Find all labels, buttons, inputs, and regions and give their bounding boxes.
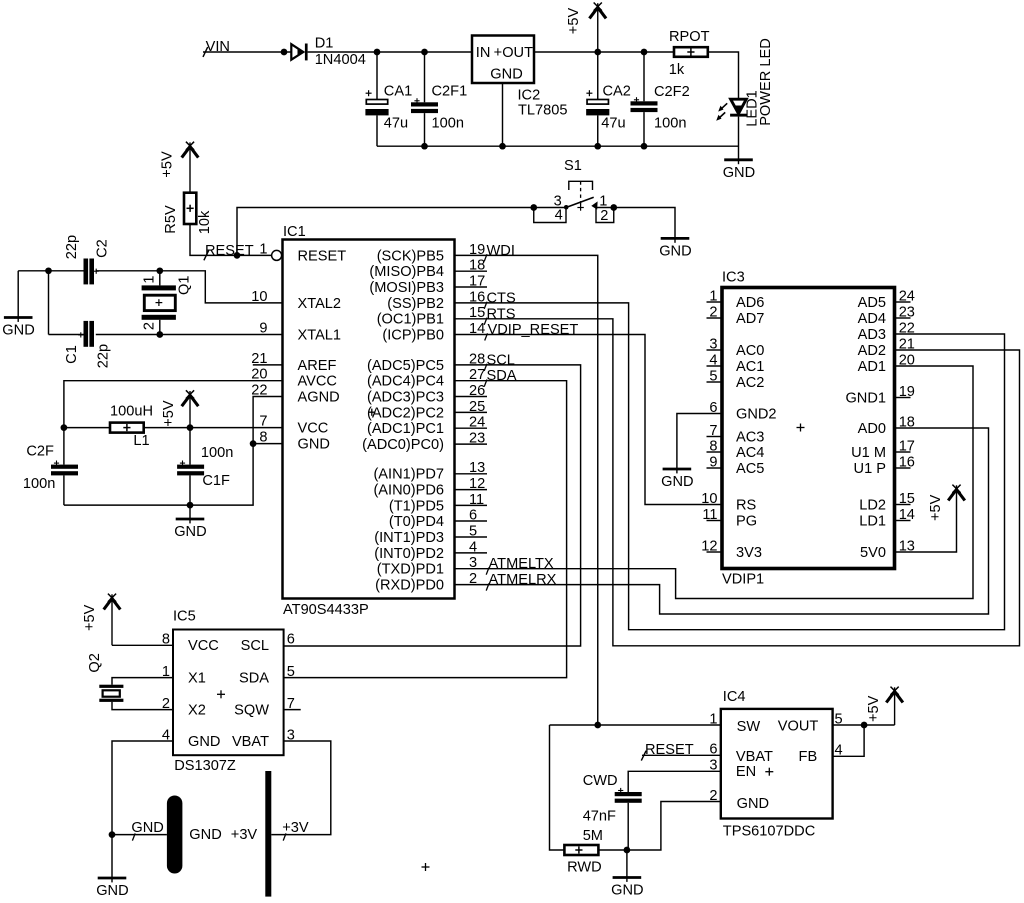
value 1k [669, 62, 685, 78]
net tick ATMELRX [486, 583, 489, 590]
wire IC5 X2 to Q2 [112, 702, 173, 710]
svg-text:47u: 47u [384, 116, 408, 132]
svg-text:(ADC4)PC4: (ADC4)PC4 [367, 374, 444, 390]
svg-text:RPOT: RPOT [669, 29, 710, 45]
junction C1/C2 ground branch [45, 267, 52, 274]
IC IC5 (RTC DS1307) box [173, 630, 284, 756]
value TPS6107DDC [723, 824, 815, 840]
label Q2 (rotated) [87, 653, 103, 672]
wire C1 left plate [49, 334, 84, 336]
net label RESET (IC1) [205, 243, 254, 259]
label C1 (rotated) [64, 345, 80, 364]
svg-text:(ADC2)PC2: (ADC2)PC2 [367, 405, 444, 421]
svg-text:AD1: AD1 [858, 359, 886, 375]
svg-text:(ADC3)PC3: (ADC3)PC3 [367, 389, 444, 405]
wire R5V to RESET pin of IC1 [190, 224, 272, 255]
svg-text:18: 18 [899, 414, 915, 430]
IC3 left pin numbers [701, 288, 717, 554]
wire IC5 VCC to +5V [112, 644, 173, 646]
svg-text:3V3: 3V3 [736, 545, 762, 561]
value TL7805 [518, 102, 568, 118]
svg-text:AD6: AD6 [736, 295, 764, 311]
wire IC4 FB to VOUT node [833, 725, 865, 756]
wire VIN to D1 anode [203, 51, 291, 53]
wire ATMELTX (IC1 pin3 to VDIP AD1) [455, 366, 974, 599]
svg-text:C2F: C2F [26, 444, 54, 460]
value 47nF [583, 808, 616, 824]
label D1 [315, 36, 334, 52]
junction Q1 top [156, 267, 163, 274]
svg-text:VIN: VIN [206, 39, 230, 55]
svg-text:4: 4 [555, 208, 563, 224]
svg-text:LD2: LD2 [859, 497, 886, 513]
IC3 unconnected right pin stubs [895, 302, 911, 521]
IC1 unconnected right pin stubs [455, 271, 488, 553]
label IC5 [173, 609, 196, 625]
wire SW node down to RWD [550, 725, 565, 850]
wire IC5 GND pin4 to battery minus [112, 741, 173, 877]
svg-text:(MISO)PB4: (MISO)PB4 [369, 264, 444, 280]
svg-text:100n: 100n [654, 116, 686, 132]
svg-text:GND: GND [96, 883, 128, 899]
ground symbol below CWD [611, 878, 643, 899]
wire IC3 GND2 to ground [677, 414, 722, 469]
label CA2 [603, 83, 631, 99]
svg-text:IC2: IC2 [518, 88, 541, 104]
svg-text:RESET: RESET [298, 248, 347, 264]
IC5 right pin numbers [287, 632, 295, 744]
svg-text:AD5: AD5 [858, 295, 886, 311]
IC IC3 (VDIP1 module) box [722, 288, 895, 569]
wire D1 cathode to IC2 IN [308, 51, 472, 53]
net label VDIP_RESET [488, 322, 579, 338]
wire IC4 GND pin2 to CWD node [627, 802, 721, 851]
IC3 right pin numbers [899, 288, 915, 554]
power +5V arrow above IC5 VCC [82, 594, 120, 646]
ground symbol below LED1 [723, 160, 755, 181]
net stub slash RESET [204, 250, 209, 260]
power +5V arrow above R5V [160, 142, 199, 193]
svg-text:1k: 1k [669, 62, 685, 78]
svg-text:GND: GND [174, 524, 206, 540]
svg-text:GND: GND [2, 323, 34, 339]
net stub slash VIN [203, 47, 208, 57]
capacitor CWD [615, 788, 642, 850]
svg-text:CWD: CWD [583, 773, 618, 789]
junction at D1 anode [281, 49, 288, 56]
label IC1 [283, 224, 306, 240]
IC1 right pin numbers [469, 242, 485, 587]
svg-text:(ADC1)PC1: (ADC1)PC1 [367, 421, 444, 437]
svg-text:AC4: AC4 [736, 445, 764, 461]
svg-text:GND: GND [737, 796, 769, 812]
switch S1 [534, 181, 614, 222]
capacitor C2F1 [411, 52, 438, 146]
svg-text:(T1)PD5: (T1)PD5 [389, 498, 444, 514]
svg-text:+5V: +5V [161, 400, 177, 427]
capacitor C1 (22p) [78, 321, 94, 347]
svg-text:+5V: +5V [160, 151, 176, 178]
svg-text:21: 21 [899, 336, 915, 352]
value 47u (CA2) [601, 116, 625, 132]
label IC4 [723, 689, 746, 705]
net tick SCL [484, 364, 487, 371]
ground symbol left of crystal [2, 318, 34, 339]
IC4 right pin numbers [835, 711, 843, 758]
svg-text:AVCC: AVCC [298, 374, 337, 390]
wire IC4 VOUT to +5V [833, 724, 895, 726]
svg-text:100n: 100n [23, 476, 55, 492]
svg-text:GND: GND [490, 67, 522, 83]
svg-text:Q2: Q2 [87, 653, 103, 672]
net label SDA [487, 368, 517, 384]
wire LED1 cathode to ground [738, 117, 740, 160]
pin number 4 of S1 [555, 208, 563, 224]
junction C2F2 top [641, 49, 648, 56]
wire AVCC (IC1 pin20) down to L1 node [64, 381, 283, 428]
crystal Q2 [99, 685, 123, 702]
svg-text:AC2: AC2 [736, 375, 764, 391]
ground symbol below S1 [659, 238, 691, 259]
svg-text:(SS)PB2: (SS)PB2 [387, 296, 444, 312]
svg-text:SW: SW [737, 719, 761, 735]
wire WDI (IC1 pin19 to IC4 SW node) [455, 255, 598, 725]
wire XTAL2 net (IC1 pin10 to Q1 and C2) [96, 271, 283, 303]
IC3 unconnected left pin stubs [707, 302, 723, 552]
IC5 SQW pin stub [284, 709, 301, 711]
wire XTAL1 net (IC1 pin9 to Q1 and C1) [96, 334, 283, 336]
value 100n of C1F [201, 445, 233, 461]
pin number 1 of S1 [599, 193, 607, 209]
svg-text:U1 M: U1 M [851, 445, 886, 461]
junction battery GND node [109, 831, 116, 838]
svg-text:C2F1: C2F1 [432, 83, 468, 99]
label R5V (rotated) [163, 205, 179, 234]
ground symbol below IC3 GND2 [661, 469, 693, 490]
svg-text:1: 1 [142, 276, 158, 284]
junction RESET / S1 branch [234, 252, 241, 259]
svg-text:Q1: Q1 [177, 275, 193, 294]
svg-text:VOUT: VOUT [778, 718, 819, 734]
svg-text:47u: 47u [601, 116, 625, 132]
resistor RPOT [674, 47, 708, 57]
power +5V arrow at IC4 VOUT [866, 687, 903, 725]
svg-text:+5V: +5V [566, 8, 582, 35]
svg-text:5V0: 5V0 [860, 545, 886, 561]
svg-text:(TXD)PD1: (TXD)PD1 [377, 562, 444, 578]
svg-text:IC1: IC1 [283, 224, 306, 240]
svg-text:(AIN1)PD7: (AIN1)PD7 [373, 467, 444, 483]
wire IC2 GND pin to ground rail [502, 83, 504, 146]
resistor RWD [564, 845, 598, 855]
svg-text:ATMELRX: ATMELRX [489, 572, 557, 588]
wire RPOT to LED1 [708, 52, 739, 99]
svg-text:EN: EN [736, 764, 756, 780]
wire CTS (IC1 pin16 to VDIP AD3) [455, 303, 1005, 630]
svg-text:CTS: CTS [487, 290, 516, 306]
value 22p of C2 (rotated) [64, 235, 80, 259]
capacitor CA2 (electrolytic) [586, 52, 609, 146]
svg-text:X1: X1 [188, 671, 206, 687]
svg-text:1N4004: 1N4004 [315, 52, 366, 68]
net label +3V (wire) [282, 820, 309, 836]
svg-text:+3V: +3V [231, 827, 258, 843]
svg-text:+5V: +5V [82, 604, 98, 631]
wire VDIP_RESET (IC1 pin14 to VDIP RS) [455, 335, 723, 505]
svg-text:POWER LED: POWER LED [758, 38, 774, 126]
svg-text:S1: S1 [564, 158, 582, 174]
svg-text:GND1: GND1 [845, 390, 886, 406]
value 100n (C2F2) [654, 116, 686, 132]
IC4 left pin numbers [709, 711, 717, 804]
svg-text:+5V: +5V [866, 695, 882, 722]
wire CWD node to ground [626, 850, 628, 877]
inverting bubble on IC1 RESET pin [272, 250, 282, 260]
label CA1 [384, 83, 412, 99]
svg-text:20: 20 [899, 352, 915, 368]
svg-text:RESET: RESET [645, 742, 694, 758]
svg-text:(OC1)PB1: (OC1)PB1 [377, 312, 444, 328]
junction C2F1 top [421, 49, 428, 56]
svg-text:VCC: VCC [298, 421, 329, 437]
svg-text:SDA: SDA [487, 368, 517, 384]
wire ATMELRX (IC1 pin2 to VDIP AD0) [455, 428, 989, 614]
net tick CTS [484, 302, 487, 309]
svg-text:100n: 100n [201, 445, 233, 461]
svg-text:(ADC5)PC5: (ADC5)PC5 [367, 358, 444, 374]
svg-text:XTAL2: XTAL2 [298, 296, 342, 312]
junction rail C2F2 [641, 143, 648, 150]
svg-text:C1F: C1F [202, 473, 230, 489]
svg-text:AD7: AD7 [736, 311, 764, 327]
net label RESET (IC4) [645, 742, 694, 758]
svg-text:1: 1 [599, 193, 607, 209]
wire L1 to AVCC node [64, 427, 110, 429]
junction FB at VOUT [861, 722, 868, 729]
net tick VDIP_RESET [485, 333, 488, 340]
wire GND net down and across (analog ground rail) [64, 444, 253, 506]
svg-text:GND: GND [188, 734, 220, 750]
svg-text:(T0)PD4: (T0)PD4 [389, 514, 444, 530]
wire IC5 X1 to Q2 [112, 678, 173, 685]
label RPOT [669, 29, 710, 45]
junction rail CA2 [594, 143, 601, 150]
capacitor C1F [177, 428, 204, 506]
junction WDI at SW [594, 722, 601, 729]
net tick ATMELTX [486, 568, 489, 575]
svg-text:RS: RS [736, 497, 757, 513]
wire IC3 5V0 to +5V [895, 497, 957, 552]
svg-text:VCC: VCC [188, 638, 219, 654]
capacitor C2F2 [631, 52, 658, 146]
net tick GND battery [132, 833, 135, 840]
power +5V arrow at IC3 5V0 [928, 485, 965, 521]
net label WDI [487, 243, 515, 259]
svg-text:AGND: AGND [298, 389, 340, 405]
wire RTS (IC1 pin15 to VDIP AD2) [455, 319, 1020, 646]
svg-text:(SCK)PB5: (SCK)PB5 [377, 248, 444, 264]
svg-text:SDA: SDA [239, 671, 269, 687]
net label CTS [487, 290, 516, 306]
junction AVCC / C2F node [61, 424, 68, 431]
IC5 left pin numbers [162, 632, 170, 744]
wire RWD to CWD junction [598, 849, 627, 851]
svg-text:(AIN0)PD6: (AIN0)PD6 [373, 483, 444, 499]
svg-text:R5V: R5V [163, 205, 179, 234]
label C2F1 [432, 83, 468, 99]
svg-text:RESET: RESET [205, 243, 254, 259]
svg-text:GND: GND [661, 474, 693, 490]
svg-text:100n: 100n [432, 116, 464, 132]
svg-text:5M: 5M [583, 828, 603, 844]
resistor R5V [184, 193, 196, 224]
junction CA1 top [374, 49, 381, 56]
net label ATMELRX [489, 572, 557, 588]
wire down to C1 [48, 271, 50, 335]
svg-text:VDIP_RESET: VDIP_RESET [488, 322, 579, 338]
wire to battery negative electrode [112, 834, 167, 836]
junction +5V / CA2 [594, 49, 601, 56]
svg-text:10: 10 [701, 491, 717, 507]
svg-text:+5V: +5V [928, 494, 944, 521]
capacitor C2 (22p) [84, 259, 99, 285]
svg-text:GND: GND [298, 437, 330, 453]
svg-text:IC4: IC4 [723, 689, 746, 705]
label LED1 (rotated) [745, 90, 761, 127]
label S1 [564, 158, 582, 174]
value VDIP1 [722, 572, 764, 588]
label C2F [26, 444, 54, 460]
value DS1307Z [174, 758, 236, 774]
svg-text:AC1: AC1 [736, 359, 764, 375]
battery electrode label +3V [231, 827, 258, 843]
svg-text:2: 2 [600, 208, 608, 224]
net label RTS [487, 306, 516, 322]
svg-text:+OUT: +OUT [494, 45, 533, 61]
label C2 (rotated) [94, 239, 110, 258]
value 100n [432, 116, 464, 132]
svg-text:IN: IN [476, 45, 491, 61]
wire IC4 SW net with WDI [550, 724, 721, 726]
svg-text:AC0: AC0 [736, 343, 764, 359]
svg-text:LD1: LD1 [859, 513, 886, 529]
wire to ground symbol (crystal section) [17, 271, 19, 317]
svg-text:ATMELTX: ATMELTX [489, 556, 554, 572]
wire IC4 EN to CWD top [628, 771, 721, 792]
battery origin cross [422, 863, 430, 871]
value 47u [384, 116, 408, 132]
wire IC2 OUT to RPOT (+5V net) [534, 51, 674, 53]
net label ATMELTX [489, 556, 554, 572]
capacitor C2F [51, 428, 78, 506]
Q1 pin number 1 (rotated) [142, 276, 158, 284]
capacitor CA1 (electrolytic) [365, 52, 388, 146]
junction S1 left contact pair [530, 204, 537, 211]
svg-text:GND: GND [131, 820, 163, 836]
svg-text:FB: FB [799, 749, 818, 765]
battery electrode label GND [189, 827, 221, 843]
net label SCL [487, 352, 515, 368]
svg-text:(ADC0)PC0): (ADC0)PC0) [362, 437, 444, 453]
label C1F [202, 473, 230, 489]
wire ground symbol stem (C1F rail) [189, 505, 191, 519]
junction S1 right contact pair [610, 204, 617, 211]
net label GND (battery) [131, 820, 163, 836]
svg-text:(ICP)PB0: (ICP)PB0 [382, 327, 444, 343]
diode D1 [291, 44, 307, 61]
power +5V arrow on VCC node [161, 390, 198, 427]
svg-text:IC5: IC5 [173, 609, 196, 625]
net tick +3V wire [283, 833, 286, 840]
svg-text:IC3: IC3 [722, 270, 745, 286]
svg-text:DS1307Z: DS1307Z [174, 758, 236, 774]
svg-text:U1 P: U1 P [854, 461, 886, 477]
wire AGND (IC1 pin22) down to GND net [253, 397, 282, 444]
svg-text:TL7805: TL7805 [518, 102, 568, 118]
IC1 left pin numbers [251, 241, 267, 445]
svg-text:(INT1)PD3: (INT1)PD3 [374, 530, 444, 546]
svg-text:(INT0)PD2: (INT0)PD2 [374, 546, 444, 562]
ground rail under power section [377, 145, 739, 147]
voltage regulator IC2 box [472, 36, 534, 84]
junction CWD bottom node [624, 847, 631, 854]
wire S1 to RESET net [237, 208, 534, 256]
wire IC4 VBAT (RESET net) [642, 754, 721, 756]
svg-text:PG: PG [736, 513, 757, 529]
svg-text:GND: GND [723, 165, 755, 181]
power +5V arrow above regulator output [566, 3, 606, 53]
label IC3 [722, 270, 745, 286]
net label VIN [206, 39, 230, 55]
value AT90S4433P [283, 602, 369, 618]
svg-text:22p: 22p [64, 235, 80, 259]
wire SCL (IC1 pin28 to IC5 SCL) [284, 365, 581, 646]
svg-text:CA1: CA1 [384, 83, 412, 99]
svg-text:GND: GND [611, 883, 643, 899]
IC1 AREF pin stub [253, 364, 283, 366]
svg-text:5: 5 [287, 664, 295, 680]
pin number 2 of S1 [600, 208, 608, 224]
net stub slash RESET IC4 [641, 751, 646, 761]
junction rail C2F1 [421, 143, 428, 150]
wire battery positive to IC5 VBAT [271, 741, 331, 835]
svg-text:RTS: RTS [487, 306, 516, 322]
label IC2 [518, 88, 541, 104]
svg-text:SCL: SCL [241, 638, 269, 654]
svg-text:47nF: 47nF [583, 808, 616, 824]
svg-text:RWD: RWD [567, 859, 602, 875]
value 22p of C1 (rotated) [95, 344, 111, 368]
svg-text:VDIP1: VDIP1 [722, 572, 764, 588]
LED LED1 [716, 99, 747, 121]
ground symbol below battery node [96, 878, 128, 899]
label RWD [567, 859, 602, 875]
net tick RTS [484, 318, 487, 325]
Q1 pin number 2 (rotated) [142, 322, 158, 330]
junction C1F bottom at rail [187, 502, 194, 509]
svg-text:AD0: AD0 [858, 421, 886, 437]
svg-text:AD4: AD4 [858, 311, 886, 327]
label L1 [133, 433, 149, 449]
svg-text:(MOSI)PB3: (MOSI)PB3 [369, 280, 444, 296]
svg-text:VBAT: VBAT [736, 749, 773, 765]
svg-text:AD2: AD2 [858, 343, 886, 359]
svg-text:SQW: SQW [234, 703, 269, 719]
svg-text:SCL: SCL [487, 352, 515, 368]
svg-text:10k: 10k [197, 210, 213, 234]
wire VCC (IC1 pin7) to L1 [144, 427, 283, 429]
value 10k (rotated) [197, 210, 213, 234]
